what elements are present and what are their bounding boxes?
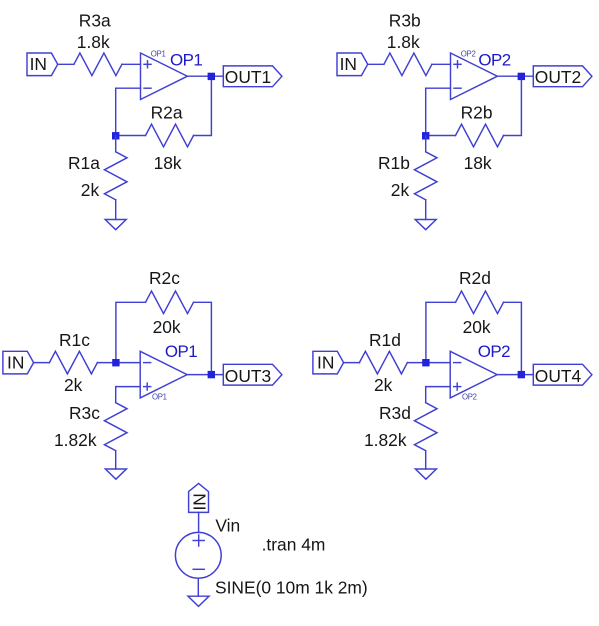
wire op-amp - input <box>426 88 451 135</box>
node output junction (d) <box>518 371 525 378</box>
op-amp OP1 (a) <box>141 49 188 99</box>
resistor R3a 1.8k <box>74 53 122 76</box>
port OUT2 <box>533 66 592 87</box>
svg-text:OP2: OP2 <box>461 49 476 58</box>
wire feedback right <box>194 302 212 374</box>
svg-text:R1a: R1a <box>68 153 100 173</box>
svg-text:OP2: OP2 <box>462 393 477 402</box>
wire IN to R1c <box>34 362 50 364</box>
svg-text:R2c: R2c <box>149 268 180 288</box>
resistor R1c 2k <box>49 351 97 374</box>
resistor R3c 1.82k <box>104 403 127 451</box>
port IN (b) <box>337 53 368 76</box>
wire op-amp output <box>497 374 533 376</box>
ground (source) <box>188 596 209 606</box>
wire Vin to ground <box>197 578 199 596</box>
resistor R2d 20k <box>456 291 504 314</box>
op-amp OP2 (b) <box>451 49 498 99</box>
node feedback junction (a) <box>112 132 119 139</box>
svg-text:OP1: OP1 <box>152 393 167 402</box>
resistor R3d 1.82k <box>414 403 437 451</box>
svg-text:OP1: OP1 <box>151 49 166 58</box>
op-amp OP1 (c) <box>140 351 187 401</box>
port IN (a) <box>27 53 58 76</box>
svg-text:SINE(0 10m 1k 2m): SINE(0 10m 1k 2m) <box>215 577 368 597</box>
wire IN to R3b <box>368 63 384 65</box>
svg-text:R3c: R3c <box>69 403 100 423</box>
svg-text:R3b: R3b <box>389 11 421 31</box>
wire feedback vertical <box>194 76 212 135</box>
wire R1b to ground <box>425 200 427 220</box>
svg-text:OUT3: OUT3 <box>225 366 271 386</box>
wire op-amp output <box>497 75 533 77</box>
resistor R2c 20k <box>146 291 194 314</box>
wire R3d to ground <box>425 451 427 469</box>
svg-text:R3a: R3a <box>79 11 111 31</box>
wire R3b to op-amp + input <box>432 63 451 65</box>
svg-text:IN: IN <box>30 54 47 74</box>
svg-text:OUT4: OUT4 <box>535 366 582 386</box>
svg-text:OUT2: OUT2 <box>535 67 581 87</box>
wire op-amp output <box>187 75 223 77</box>
svg-text:IN: IN <box>340 54 357 74</box>
wire feedback left <box>116 302 146 362</box>
wire op-amp + input <box>426 387 451 403</box>
svg-text:2k: 2k <box>64 375 83 395</box>
port IN (source, pointing up) <box>189 483 210 512</box>
svg-text:R1b: R1b <box>378 153 410 173</box>
resistor R1d 2k <box>359 351 407 374</box>
ground (d) <box>415 469 436 479</box>
wire op-amp + input <box>116 387 141 403</box>
resistor R1b 2k <box>414 152 437 200</box>
node output junction (a) <box>208 73 215 80</box>
port IN (c) <box>3 351 34 374</box>
port OUT3 <box>223 364 282 386</box>
svg-text:20k: 20k <box>463 317 491 337</box>
svg-text:2k: 2k <box>374 375 393 395</box>
svg-text:R3d: R3d <box>379 403 411 423</box>
op-amp OP2 (d) <box>450 351 497 401</box>
ground (a) <box>105 220 126 230</box>
wire feedback left <box>426 302 456 362</box>
resistor R3b 1.8k <box>384 53 432 76</box>
port OUT4 <box>533 364 592 386</box>
wire junction to R1b <box>425 136 427 152</box>
port IN (d) <box>313 351 344 374</box>
port OUT1 <box>223 66 282 87</box>
svg-text:R2d: R2d <box>459 268 491 288</box>
wire R1d to op-amp - input <box>407 362 450 364</box>
resistor R2a 18k <box>146 124 194 147</box>
ground (c) <box>105 469 126 479</box>
node output junction (b) <box>518 73 525 80</box>
svg-text:18k: 18k <box>154 153 182 173</box>
svg-text:1.82k: 1.82k <box>364 430 407 450</box>
wire R3a to op-amp + input <box>122 63 141 65</box>
svg-text:18k: 18k <box>464 153 492 173</box>
wire IN to R3a <box>58 63 74 65</box>
wire IN flag to Vin <box>198 512 200 532</box>
svg-text:.tran 4m: .tran 4m <box>262 535 326 555</box>
svg-text:R1c: R1c <box>59 330 90 350</box>
wire R3c to ground <box>115 451 117 469</box>
svg-text:IN: IN <box>317 352 334 372</box>
wire op-amp output <box>187 374 223 376</box>
resistor R2b 18k <box>456 124 504 147</box>
wire R1c to op-amp - input <box>97 362 140 364</box>
svg-text:OP2: OP2 <box>478 342 510 361</box>
resistor R1a 2k <box>104 152 127 200</box>
wire op-amp - input <box>116 88 141 135</box>
wire R1a to ground <box>115 200 117 220</box>
wire junction to R2b <box>426 135 456 137</box>
svg-text:2k: 2k <box>391 180 410 200</box>
svg-text:IN: IN <box>189 493 209 510</box>
svg-text:OP1: OP1 <box>165 342 197 361</box>
svg-text:1.8k: 1.8k <box>387 32 420 52</box>
svg-text:R1d: R1d <box>369 330 401 350</box>
ground (b) <box>415 220 436 230</box>
node input junction (c) <box>112 359 119 366</box>
svg-text:Vin: Vin <box>215 515 240 535</box>
svg-text:OUT1: OUT1 <box>225 67 271 87</box>
svg-text:IN: IN <box>7 352 24 372</box>
svg-text:20k: 20k <box>153 317 181 337</box>
voltage source Vin <box>175 532 221 578</box>
node input junction (d) <box>422 359 429 366</box>
svg-text:OP1: OP1 <box>170 50 202 69</box>
svg-text:R2b: R2b <box>461 102 493 122</box>
svg-text:1.8k: 1.8k <box>77 32 110 52</box>
wire IN to R1d <box>344 362 360 364</box>
svg-text:R2a: R2a <box>151 102 183 122</box>
wire junction to R2a <box>116 135 146 137</box>
svg-text:OP2: OP2 <box>478 50 510 69</box>
node feedback junction (b) <box>422 132 429 139</box>
wire junction to R1a <box>115 136 117 152</box>
svg-text:1.82k: 1.82k <box>54 430 97 450</box>
node output junction (c) <box>208 371 215 378</box>
wire feedback right <box>504 302 522 374</box>
svg-text:2k: 2k <box>81 180 100 200</box>
wire feedback vertical <box>504 76 522 135</box>
